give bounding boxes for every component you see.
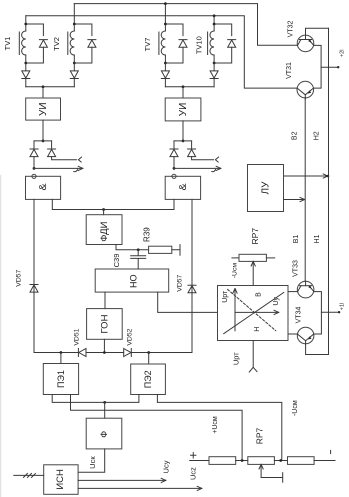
svg-text:УИ: УИ <box>178 103 189 117</box>
svg-text:Uрт: Uрт <box>232 352 241 365</box>
svg-text:Н: Н <box>254 327 261 332</box>
svg-text:Uсz: Uсz <box>189 467 198 480</box>
svg-text:RP7: RP7 <box>250 228 260 245</box>
svg-text:Uрт: Uрт <box>222 290 229 303</box>
svg-text:ПЭ2: ПЭ2 <box>143 370 153 388</box>
svg-text:Н2: Н2 <box>314 131 321 140</box>
svg-text:ЛУ: ЛУ <box>261 181 272 195</box>
svg-text:УИ: УИ <box>38 102 49 116</box>
svg-text:VT31: VT31 <box>286 62 293 79</box>
svg-text:VD57: VD57 <box>176 274 183 291</box>
svg-text:VD52: VD52 <box>126 328 133 345</box>
svg-text:VT33: VT33 <box>293 260 300 277</box>
svg-text:Uу: Uу <box>273 297 280 306</box>
svg-text:VD57: VD57 <box>15 269 22 286</box>
svg-text:VT34: VT34 <box>296 307 303 324</box>
svg-text:В1: В1 <box>293 235 300 244</box>
svg-text:ПЭ1: ПЭ1 <box>56 370 66 388</box>
svg-text:ГОН: ГОН <box>99 314 110 333</box>
svg-text:ФДИ: ФДИ <box>99 221 110 241</box>
svg-text:Н1: Н1 <box>314 234 321 243</box>
svg-text:&: & <box>177 183 189 190</box>
svg-text:Uсу: Uсу <box>162 460 171 473</box>
svg-text:+Uсм: +Uсм <box>212 416 219 434</box>
svg-text:&: & <box>37 183 49 190</box>
svg-text:-Uсм: -Uсм <box>232 263 239 279</box>
svg-text:НО: НО <box>129 275 139 289</box>
svg-text:TV2: TV2 <box>52 37 61 51</box>
svg-text:ИСН: ИСН <box>55 469 66 490</box>
svg-text:VD51: VD51 <box>74 328 81 345</box>
svg-text:+1l: +1l <box>339 303 345 311</box>
svg-text:TV7: TV7 <box>143 38 152 52</box>
svg-text:В: В <box>256 292 263 297</box>
svg-text:В2: В2 <box>292 131 299 140</box>
svg-text:Uск: Uск <box>88 456 97 469</box>
svg-text:Ф: Ф <box>99 431 109 438</box>
svg-text:С39: С39 <box>112 254 121 268</box>
svg-text:TV10: TV10 <box>194 36 203 54</box>
svg-text:VT32: VT32 <box>288 21 295 38</box>
svg-text:+2l: +2l <box>339 50 345 58</box>
svg-text:-Uсм: -Uсм <box>292 400 299 416</box>
svg-text:TV1: TV1 <box>3 37 12 51</box>
svg-text:RP7: RP7 <box>254 427 264 444</box>
svg-text:R39: R39 <box>142 227 151 242</box>
